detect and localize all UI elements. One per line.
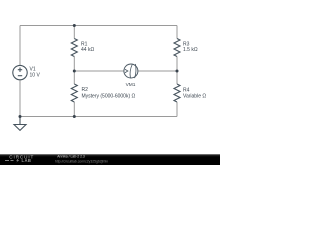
label V1 value xyxy=(30,66,41,78)
voltmeter VM1 xyxy=(124,64,138,78)
label R1 44 kΩ xyxy=(81,42,94,54)
wire top rail xyxy=(20,25,177,27)
svg-text:R2: R2 xyxy=(82,87,89,93)
wire middle left to VM1 xyxy=(74,70,124,72)
resistor R4 xyxy=(174,84,180,102)
svg-text:http://circuitlab.com/c2y325g6: http://circuitlab.com/c2y325g62jh9n xyxy=(55,160,108,164)
wire R4 bottom stub xyxy=(176,102,178,117)
node junction R1-R2-VM1 xyxy=(73,70,76,73)
voltage source V1 xyxy=(13,65,27,79)
svg-text:VM1: VM1 xyxy=(126,82,136,88)
CircuitLab logo xyxy=(5,154,34,163)
resistor R3 xyxy=(174,39,180,57)
node junction R3-R4-VM1 xyxy=(176,70,179,73)
svg-text:R4: R4 xyxy=(183,88,190,94)
wire V1 bottom to bottom rail xyxy=(19,80,21,117)
label R3 1.5 kΩ xyxy=(183,42,198,54)
wire left vertical from top rail to V1 xyxy=(19,26,21,66)
svg-text:1.5 kΩ: 1.5 kΩ xyxy=(183,47,198,53)
label R4 Variable xyxy=(183,88,206,100)
resistor R1 xyxy=(71,39,77,57)
svg-text:44 kΩ: 44 kΩ xyxy=(81,47,94,53)
wire bottom rail xyxy=(20,116,177,118)
node junction R1 top xyxy=(73,24,76,27)
svg-text:Variable Ω: Variable Ω xyxy=(183,94,206,100)
wire R3 top stub xyxy=(176,26,178,39)
svg-text:Mystery (5000-6000k) Ω: Mystery (5000-6000k) Ω xyxy=(82,93,136,99)
svg-text:10 V: 10 V xyxy=(30,72,41,78)
CircuitLab watermark bar xyxy=(0,154,220,165)
resistor R2 xyxy=(71,84,77,102)
node junction ground xyxy=(19,115,22,118)
wire R3-R4 middle stub xyxy=(176,57,178,85)
node junction R2 bottom rail xyxy=(73,115,76,118)
wire R1 top stub xyxy=(73,26,75,39)
svg-text:Annika / Lab-2 2.3: Annika / Lab-2 2.3 xyxy=(57,155,85,159)
wire R1-R2 middle stub xyxy=(73,57,75,85)
svg-text:LAB: LAB xyxy=(22,158,32,163)
label R2 Mystery xyxy=(82,87,136,99)
ground xyxy=(14,117,26,131)
wire middle VM1 to right column xyxy=(138,70,177,72)
wire R2 bottom stub xyxy=(73,102,75,117)
